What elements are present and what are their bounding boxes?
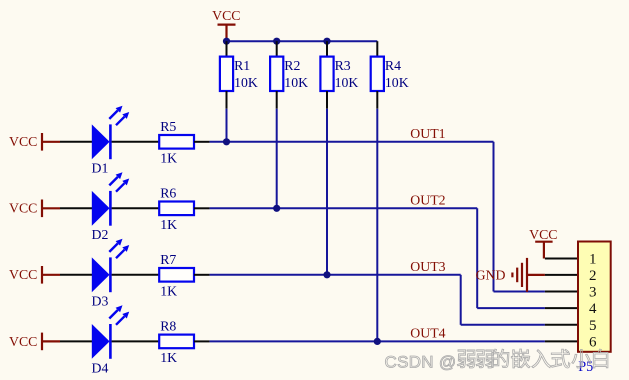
- resistor R4 10K: [371, 41, 409, 109]
- svg-text:GND: GND: [476, 268, 506, 283]
- power VCC right: [529, 227, 557, 258]
- pin 2 stub: [545, 274, 578, 276]
- wire R5 right pin: [194, 141, 210, 143]
- svg-text:OUT2: OUT2: [410, 192, 445, 207]
- wire D4 to R8: [112, 340, 159, 342]
- LED D4: [92, 305, 130, 375]
- svg-text:CSDN @: CSDN @: [385, 353, 457, 372]
- svg-text:R2: R2: [284, 58, 300, 73]
- svg-text:1: 1: [589, 252, 597, 268]
- pin 5 stub: [545, 324, 578, 326]
- svg-text:VCC: VCC: [212, 8, 240, 23]
- junction bus-R1: [223, 38, 230, 45]
- svg-text:R8: R8: [160, 319, 176, 334]
- svg-text:D3: D3: [92, 294, 109, 309]
- junction bus-R2: [273, 38, 280, 45]
- wire VCC to D1 anode: [60, 141, 93, 143]
- resistor R5 1K: [159, 119, 194, 166]
- resistor R6 1K: [159, 185, 194, 232]
- svg-text:1K: 1K: [160, 217, 177, 232]
- pin 6 stub: [545, 340, 578, 342]
- power port VCC row 2: [9, 200, 60, 218]
- junction row 3: [323, 271, 330, 278]
- LED D3: [92, 239, 130, 309]
- wire net OUT3 horizontal: [210, 274, 461, 276]
- ground GND: [476, 258, 545, 292]
- LED D2: [92, 172, 130, 242]
- junction row 2: [273, 205, 280, 212]
- wire VCC to D3 anode: [60, 274, 93, 276]
- svg-text:3: 3: [589, 285, 597, 301]
- wire net OUT1 horizontal: [210, 141, 494, 143]
- junction row 4: [374, 338, 381, 345]
- wire net OUT4 horizontal: [210, 340, 545, 342]
- svg-text:VCC: VCC: [9, 201, 37, 216]
- wire OUT2 vertical: [476, 208, 478, 308]
- wire OUT3 to pin 5: [461, 324, 545, 326]
- wire R4 to row 4: [376, 109, 378, 342]
- wire net OUT2 horizontal: [210, 207, 478, 209]
- svg-text:VCC: VCC: [9, 334, 37, 349]
- svg-text:1K: 1K: [160, 284, 177, 299]
- svg-text:R7: R7: [160, 252, 176, 267]
- wire VCC to D2 anode: [60, 207, 93, 209]
- pin 1 stub: [545, 258, 578, 260]
- wire R3 to row 3: [326, 109, 328, 275]
- wire R7 right pin: [194, 274, 210, 276]
- svg-text:4: 4: [589, 301, 597, 317]
- resistor R1 10K: [220, 41, 258, 109]
- svg-text:R6: R6: [160, 185, 176, 200]
- wire R1 to row 1: [226, 109, 228, 142]
- svg-text:1K: 1K: [160, 350, 177, 365]
- svg-text:2: 2: [589, 268, 597, 284]
- wire D2 to R6: [112, 207, 159, 209]
- svg-text:5: 5: [589, 318, 597, 334]
- svg-text:10K: 10K: [234, 75, 258, 90]
- connector P5: [578, 242, 611, 376]
- svg-text:VCC: VCC: [9, 134, 37, 149]
- wire VCC to D4 anode: [60, 340, 93, 342]
- resistor R8 1K: [159, 319, 194, 366]
- svg-text:R3: R3: [335, 58, 351, 73]
- svg-text:R4: R4: [385, 58, 401, 73]
- wire OUT2 to pin 4: [477, 307, 545, 309]
- wire R2 to row 2: [276, 109, 278, 209]
- power port VCC row 4: [9, 333, 60, 351]
- watermark CSDN: [385, 349, 608, 372]
- junction bus-R3: [323, 38, 330, 45]
- svg-text:D1: D1: [92, 161, 109, 176]
- pin 3 stub: [545, 291, 578, 293]
- svg-text:D4: D4: [92, 360, 109, 375]
- wire OUT1 vertical: [493, 142, 495, 292]
- junction row 1: [223, 138, 230, 145]
- svg-text:1K: 1K: [160, 151, 177, 166]
- wire D3 to R7: [112, 274, 159, 276]
- wire R6 right pin: [194, 207, 210, 209]
- svg-text:R1: R1: [234, 58, 250, 73]
- resistor R2 10K: [270, 41, 308, 109]
- pin 4 stub: [545, 307, 578, 309]
- svg-text:10K: 10K: [335, 75, 359, 90]
- wire OUT3 vertical: [460, 275, 462, 325]
- LED D1: [92, 106, 130, 176]
- resistor R3 10K: [320, 41, 358, 109]
- svg-text:VCC: VCC: [529, 227, 557, 242]
- power port VCC row 1: [9, 133, 60, 151]
- svg-text:D2: D2: [92, 227, 109, 242]
- power port VCC row 3: [9, 266, 60, 284]
- wire R8 right pin: [194, 340, 210, 342]
- svg-text:R5: R5: [160, 119, 176, 134]
- svg-text:OUT4: OUT4: [410, 326, 445, 341]
- svg-text:6: 6: [589, 334, 597, 350]
- wire D1 to R5: [112, 141, 159, 143]
- svg-text:VCC: VCC: [9, 267, 37, 282]
- wire OUT1 to pin 3: [494, 291, 545, 293]
- resistor R7 1K: [159, 252, 194, 299]
- power VCC top: [212, 8, 240, 41]
- svg-text:10K: 10K: [284, 75, 308, 90]
- svg-text:OUT3: OUT3: [410, 259, 445, 274]
- svg-text:10K: 10K: [385, 75, 409, 90]
- wire top bus: [227, 40, 378, 42]
- svg-text:OUT1: OUT1: [410, 126, 445, 141]
